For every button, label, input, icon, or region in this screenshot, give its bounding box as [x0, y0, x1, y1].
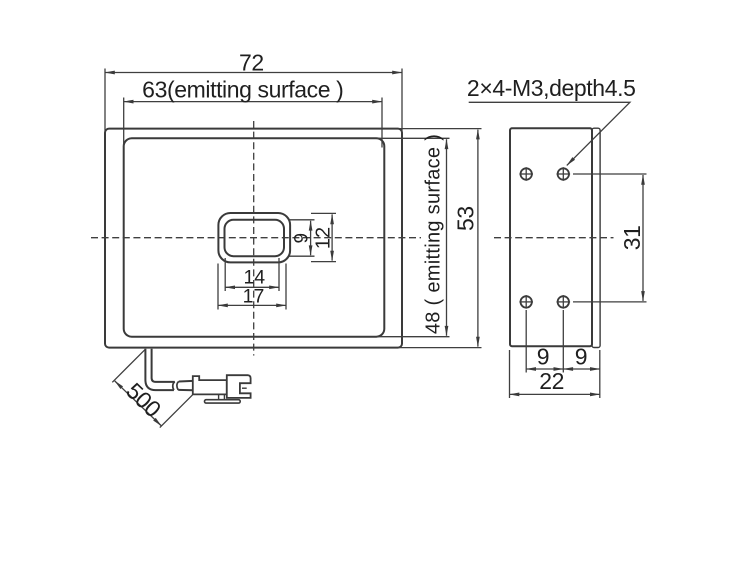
- dim 500 cable length: [112, 350, 192, 428]
- dim 31 hole spacing: [573, 174, 647, 302]
- svg-text:2×4-M3,depth4.5: 2×4-M3,depth4.5: [467, 75, 636, 101]
- svg-text:17: 17: [243, 285, 265, 307]
- side view body: [510, 128, 592, 346]
- dim 9 left hole spacing: [526, 310, 563, 373]
- svg-text:9: 9: [537, 344, 549, 370]
- dim 9 right hole spacing: [563, 344, 600, 399]
- dim 22 side width: [510, 350, 600, 398]
- cable wire from panel: [145, 349, 174, 390]
- front view outer body: [105, 129, 402, 348]
- svg-text:500: 500: [121, 378, 166, 423]
- svg-text:63(emitting surface ): 63(emitting surface ): [142, 77, 343, 103]
- svg-text:48 ( emitting surface ): 48 ( emitting surface ): [423, 134, 445, 334]
- cable break symbol: [173, 382, 179, 391]
- svg-text:72: 72: [239, 49, 264, 75]
- side view diffuser plate: [592, 128, 600, 347]
- dim 63 emitting surface: [124, 77, 382, 148]
- front view horizontal center line: [91, 237, 421, 239]
- aperture inner ring: [225, 220, 285, 256]
- connector latch: [205, 394, 241, 403]
- svg-text:9: 9: [575, 344, 587, 370]
- dim 14 aperture inner width: [225, 258, 279, 291]
- dim 12 aperture outer height: [311, 213, 336, 261]
- side view horizontal center line: [494, 237, 614, 239]
- svg-text:31: 31: [619, 226, 645, 251]
- dim 72: [105, 49, 402, 133]
- svg-text:22: 22: [539, 368, 564, 394]
- mounting hole top-left: [519, 167, 533, 181]
- dim 53: [399, 129, 482, 348]
- front view vertical center line: [253, 121, 255, 356]
- dim 17 aperture outer width: [218, 264, 286, 310]
- mounting hole bottom-left: [519, 295, 533, 309]
- dim 9 aperture height: [289, 220, 315, 256]
- leader 2x4-M3 depth4.5: [467, 75, 636, 165]
- svg-text:9: 9: [291, 233, 312, 244]
- cable wire to connector: [178, 381, 193, 390]
- mounting hole bottom-right: [557, 295, 571, 309]
- aperture outer ring: [218, 213, 290, 262]
- connector housing with prongs: [227, 375, 251, 398]
- svg-text:53: 53: [453, 206, 479, 231]
- mounting hole top-right: [557, 167, 571, 181]
- front view emitting surface: [124, 138, 385, 336]
- connector rear shell: [193, 376, 227, 394]
- dim 48 emitting surface: [377, 134, 450, 337]
- svg-text:12: 12: [312, 227, 334, 249]
